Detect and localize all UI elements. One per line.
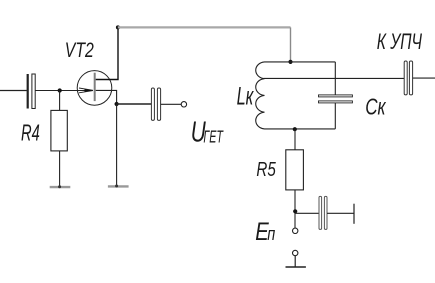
VT2 body circle <box>77 71 112 106</box>
capacitor C-bypass plate 2 <box>324 196 327 229</box>
svg-text:К УПЧ: К УПЧ <box>377 29 422 54</box>
node tank bottom junction <box>293 127 297 131</box>
wire output right <box>413 77 435 79</box>
capacitor C-het plate 2 <box>157 88 160 120</box>
wire R4 to ground <box>59 151 61 187</box>
wire Ep node to bypass cap <box>295 212 319 214</box>
wire gate node down to R4 <box>59 91 61 111</box>
svg-text:VT2: VT2 <box>65 39 94 62</box>
node gate junction <box>58 88 62 92</box>
wire VT2 drain to top rail <box>96 27 118 79</box>
wire source node to ground <box>116 104 118 186</box>
svg-text:ГЕТ: ГЕТ <box>203 126 223 146</box>
svg-text:Lк: Lк <box>237 82 255 110</box>
resistor R5 <box>286 150 304 190</box>
svg-text:R5: R5 <box>256 159 276 181</box>
wire chassis terminal to ground <box>294 256 296 267</box>
wire tank bottom to R5 <box>294 129 296 150</box>
wire bypass cap to ground bar <box>327 212 354 214</box>
wire top rail <box>118 26 291 28</box>
wire het cap to terminal <box>161 103 181 105</box>
ground bypass <box>353 204 355 224</box>
capacitor C-out plate 1 <box>404 61 407 95</box>
resistor R4 <box>51 110 67 150</box>
terminal Ep <box>293 228 298 233</box>
inductor Lk <box>256 62 336 129</box>
wire tank right edge lower <box>334 103 336 129</box>
wire rail down to tank top <box>290 27 292 62</box>
wire input cap to gate <box>35 90 93 92</box>
capacitor C-out plate 2 <box>409 61 412 95</box>
capacitor C-input right plate <box>32 74 35 109</box>
node Ep junction <box>293 209 297 213</box>
wire input left <box>0 90 27 92</box>
ground source <box>108 185 129 187</box>
capacitor C-bypass plate 1 <box>319 196 322 229</box>
ground R4 <box>50 186 71 188</box>
capacitor C-input left plate <box>27 74 29 109</box>
wire tank right edge upper <box>334 62 336 95</box>
svg-text:R4: R4 <box>21 120 40 146</box>
svg-text:Cк: Cк <box>365 94 386 120</box>
wire source node to het cap <box>117 103 152 105</box>
node tank top junction <box>288 60 292 64</box>
wire VT2 source to node <box>96 90 117 104</box>
node source junction <box>115 102 119 106</box>
terminal Uget <box>181 102 186 107</box>
wire R5 to Ep node <box>294 190 296 228</box>
ground chassis <box>286 266 306 268</box>
VT2 gate arrow <box>79 88 93 90</box>
capacitor Ck top plate <box>319 95 353 97</box>
node top rail corner <box>116 25 120 29</box>
terminal chassis <box>293 250 298 255</box>
wire coil tap to output <box>264 77 405 79</box>
transistor VT2 <box>77 71 112 106</box>
capacitor Ck bottom plate <box>319 101 353 103</box>
VT2 channel bar <box>94 73 96 101</box>
svg-text:п: п <box>267 223 275 244</box>
capacitor C-het plate 1 <box>151 88 154 120</box>
